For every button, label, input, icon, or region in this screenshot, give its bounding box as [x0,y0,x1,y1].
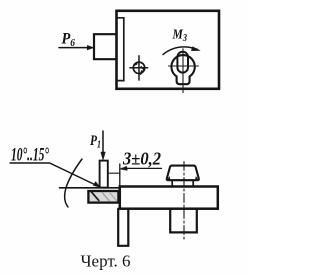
screw neck / washer [172,180,193,186]
lever top line [60,187,119,189]
hatched lever section [88,191,118,203]
boss protrusion on left of block [94,34,117,59]
screw head (truncated cone) [167,166,199,181]
pin (plunger) [100,161,108,188]
block body (top view housing) [117,11,220,89]
crosshair adjuster symbol [130,56,148,80]
screw head corner shading [167,176,198,180]
knob horizontal centerline [168,65,198,67]
knob keyhole boss outline [171,55,194,84]
dimension line 3mm gap [108,172,120,174]
knob vertical centerline [182,49,184,93]
leader arrowhead [93,182,100,188]
plate (base) [120,187,218,209]
dimension leader line with arrow [122,167,162,169]
svg-text:3±0,2: 3±0,2 [122,149,161,169]
rotation arc 10-15 deg [65,159,82,207]
plate left edge extension line [119,164,121,187]
hanging tab below plate [118,209,128,246]
svg-text:P1: P1 [90,133,101,151]
knob handle (inner stadium) [177,52,188,73]
force P1 arrow [102,131,104,154]
screw centerline [183,162,185,242]
torque M3 arc arrow [163,47,198,55]
svg-text:Черт. 6: Черт. 6 [81,252,131,271]
block inner lip line [117,18,124,81]
screw body below plate [170,209,197,233]
svg-text:M3: M3 [172,28,187,45]
force P6 arrow [59,47,87,49]
svg-text:P6: P6 [61,31,76,50]
leader underline for angle label [10,163,99,187]
